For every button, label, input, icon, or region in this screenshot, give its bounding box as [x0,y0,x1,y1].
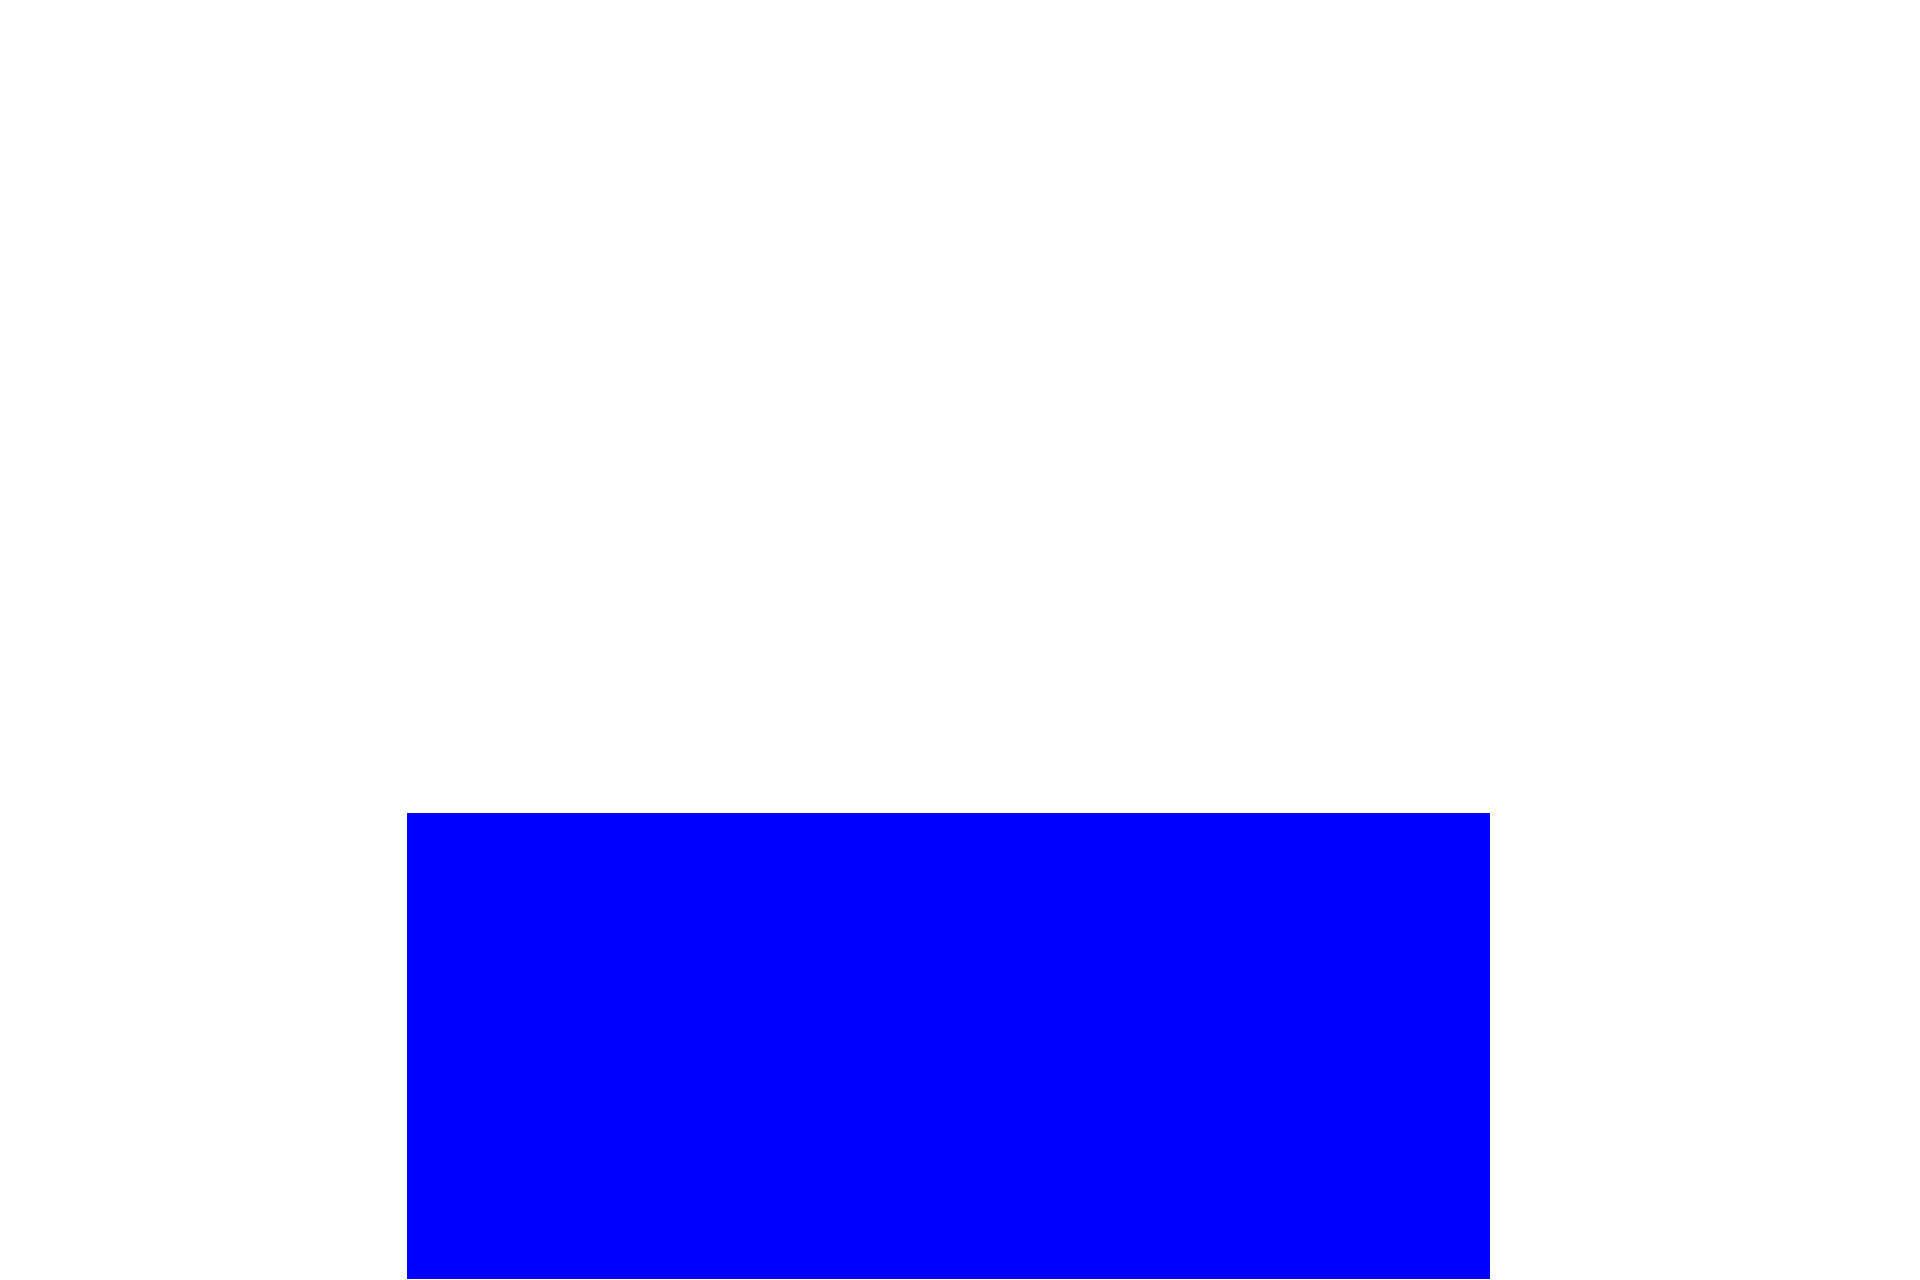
blue rectangle [407,813,1490,1279]
